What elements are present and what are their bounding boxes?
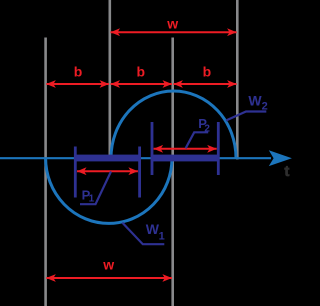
time axis	[0, 157, 271, 159]
svg-text:2: 2	[204, 124, 210, 135]
axis arrowhead	[269, 150, 292, 166]
gridline L1	[44, 38, 47, 306]
gate tick 2 right	[217, 122, 220, 175]
gate tick 2 left	[151, 122, 154, 175]
dimension arrow b2	[111, 83, 173, 85]
leader P1	[80, 172, 111, 205]
svg-text:w: w	[166, 15, 178, 31]
svg-text:W: W	[248, 92, 262, 108]
dimension arrow P2	[154, 148, 217, 150]
gate tick 1 right	[138, 147, 141, 198]
dimension arrow b3	[173, 83, 236, 85]
leader W2	[226, 112, 266, 121]
dimension arrow w top	[111, 31, 237, 33]
svg-text:2: 2	[262, 101, 268, 113]
gridline L4	[236, 0, 239, 160]
pulse bar 1	[74, 155, 141, 162]
svg-text:w: w	[102, 256, 114, 272]
svg-text:b: b	[74, 64, 83, 80]
gridline L2	[109, 0, 112, 155]
leader W1	[122, 223, 164, 245]
svg-text:b: b	[203, 64, 212, 80]
svg-text:t: t	[284, 163, 289, 180]
pulse envelope W1 (lower semicircle)	[46, 158, 172, 223]
svg-text:1: 1	[89, 194, 95, 205]
dimension arrow b1	[46, 83, 109, 85]
svg-text:1: 1	[159, 230, 165, 242]
pulse envelope W2 (upper semicircle)	[111, 91, 236, 158]
dimension arrow P1	[77, 170, 138, 172]
gridline L3	[171, 38, 174, 306]
dimension arrow w bottom	[46, 277, 172, 279]
leader P2	[186, 132, 209, 148]
pulse bar 2	[151, 155, 220, 162]
gate tick 1 left	[74, 147, 77, 198]
svg-text:b: b	[137, 64, 146, 80]
